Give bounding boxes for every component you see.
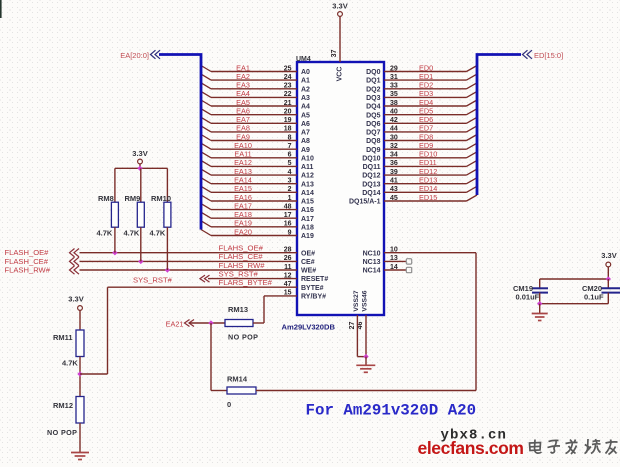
- svg-text:NO POP: NO POP: [228, 333, 258, 342]
- svg-text:A7: A7: [301, 130, 310, 137]
- svg-text:3.3V: 3.3V: [332, 2, 347, 11]
- svg-text:ED11: ED11: [419, 158, 437, 167]
- svg-text:30: 30: [390, 134, 398, 141]
- svg-text:5: 5: [288, 160, 292, 167]
- svg-text:4: 4: [288, 169, 292, 176]
- svg-text:34: 34: [390, 152, 398, 159]
- svg-text:DQ7: DQ7: [366, 130, 381, 137]
- svg-text:EA[20:0]: EA[20:0]: [120, 51, 149, 60]
- svg-text:33: 33: [390, 83, 398, 90]
- svg-text:ED15: ED15: [419, 193, 437, 202]
- svg-text:A5: A5: [301, 112, 310, 119]
- svg-text:NC10: NC10: [363, 250, 381, 257]
- svg-text:UM4: UM4: [296, 56, 311, 63]
- svg-text:4.7K: 4.7K: [62, 359, 78, 368]
- svg-text:16: 16: [284, 221, 292, 228]
- svg-text:A17: A17: [301, 216, 314, 223]
- svg-text:RESET#: RESET#: [301, 276, 328, 283]
- svg-text:RY/BY#: RY/BY#: [301, 294, 326, 301]
- svg-text:EA21: EA21: [166, 320, 184, 329]
- svg-text:DQ0: DQ0: [366, 69, 381, 76]
- svg-text:DQ3: DQ3: [366, 95, 381, 102]
- svg-text:DQ13: DQ13: [362, 181, 380, 188]
- svg-text:SYS_RST#: SYS_RST#: [133, 275, 173, 284]
- svg-text:RM12: RM12: [53, 401, 73, 410]
- svg-text:DQ10: DQ10: [362, 155, 380, 162]
- svg-text:4.7K: 4.7K: [150, 229, 166, 238]
- svg-text:FLASH_CE#: FLASH_CE#: [5, 257, 49, 266]
- svg-text:42: 42: [390, 117, 398, 124]
- svg-text:RM8: RM8: [98, 194, 114, 203]
- svg-text:A9: A9: [301, 147, 310, 154]
- svg-text:ED1: ED1: [419, 72, 433, 81]
- svg-text:43: 43: [390, 186, 398, 193]
- svg-text:DQ4: DQ4: [366, 104, 381, 111]
- svg-text:EA19: EA19: [234, 219, 252, 228]
- svg-text:29: 29: [390, 65, 398, 72]
- svg-text:RM14: RM14: [227, 375, 248, 384]
- svg-text:2: 2: [288, 186, 292, 193]
- svg-text:3.3V: 3.3V: [68, 295, 83, 304]
- svg-text:32: 32: [390, 143, 398, 150]
- svg-text:DQ14: DQ14: [362, 190, 380, 197]
- svg-text:18: 18: [284, 126, 292, 133]
- svg-text:FLASH_RW#: FLASH_RW#: [5, 266, 51, 275]
- svg-text:ED[15:0]: ED[15:0]: [534, 51, 563, 60]
- svg-text:A16: A16: [301, 207, 314, 214]
- svg-text:NO POP: NO POP: [47, 428, 77, 437]
- svg-text:EA2: EA2: [236, 72, 250, 81]
- svg-text:48: 48: [284, 203, 292, 210]
- svg-text:RM11: RM11: [53, 333, 73, 342]
- svg-text:21: 21: [284, 100, 292, 107]
- svg-text:A15: A15: [301, 199, 314, 206]
- svg-text:FLAHS_OE#: FLAHS_OE#: [219, 244, 264, 253]
- svg-text:DQ8: DQ8: [366, 138, 381, 145]
- svg-text:A13: A13: [301, 181, 314, 188]
- svg-text:A18: A18: [301, 224, 314, 231]
- svg-text:17: 17: [284, 212, 292, 219]
- svg-text:WE#: WE#: [301, 268, 316, 275]
- svg-text:BYTE#: BYTE#: [301, 285, 324, 292]
- svg-text:For Am291v320D A20: For Am291v320D A20: [306, 402, 477, 420]
- svg-text:25: 25: [284, 65, 292, 72]
- svg-text:RM13: RM13: [228, 305, 248, 314]
- svg-text:RM9: RM9: [125, 194, 141, 203]
- svg-text:36: 36: [390, 160, 398, 167]
- svg-text:A19: A19: [301, 233, 314, 240]
- svg-text:27: 27: [349, 322, 356, 330]
- svg-text:DQ9: DQ9: [366, 147, 381, 154]
- svg-text:elecfans.com: elecfans.com: [418, 438, 524, 458]
- svg-text:3: 3: [288, 178, 292, 185]
- svg-text:CE#: CE#: [301, 259, 315, 266]
- svg-text:0.01uF: 0.01uF: [516, 292, 540, 301]
- svg-text:DQ15/A-1: DQ15/A-1: [349, 199, 381, 206]
- svg-text:A4: A4: [301, 104, 310, 111]
- svg-text:VCC: VCC: [337, 67, 344, 82]
- svg-text:41: 41: [390, 178, 398, 185]
- svg-text:A10: A10: [301, 155, 314, 162]
- svg-text:8: 8: [288, 134, 292, 141]
- svg-text:A2: A2: [301, 86, 310, 93]
- svg-text:6: 6: [288, 152, 292, 159]
- svg-text:EA5: EA5: [236, 98, 250, 107]
- svg-text:ED8: ED8: [419, 132, 433, 141]
- svg-text:DQ11: DQ11: [363, 164, 381, 171]
- svg-text:31: 31: [390, 74, 398, 81]
- svg-text:37: 37: [331, 50, 338, 58]
- svg-text:ED14: ED14: [419, 184, 437, 193]
- svg-text:A1: A1: [301, 78, 310, 85]
- svg-text:A0: A0: [301, 69, 310, 76]
- svg-text:ED4: ED4: [419, 98, 433, 107]
- svg-text:DQ2: DQ2: [366, 86, 381, 93]
- svg-text:4.7K: 4.7K: [97, 229, 113, 238]
- svg-text:24: 24: [284, 74, 292, 81]
- svg-text:0.1uF: 0.1uF: [584, 292, 604, 301]
- svg-text:3.3V: 3.3V: [601, 251, 616, 260]
- svg-text:EA9: EA9: [236, 132, 250, 141]
- svg-text:DQ12: DQ12: [362, 173, 380, 180]
- svg-text:DQ6: DQ6: [366, 121, 381, 128]
- svg-text:VSS46: VSS46: [361, 290, 368, 311]
- svg-text:DQ1: DQ1: [366, 78, 381, 85]
- svg-text:RM10: RM10: [151, 194, 171, 203]
- svg-text:EA12: EA12: [234, 158, 252, 167]
- svg-text:A12: A12: [301, 173, 314, 180]
- svg-text:A3: A3: [301, 95, 310, 102]
- svg-text:22: 22: [284, 91, 292, 98]
- svg-text:A11: A11: [301, 164, 314, 171]
- svg-text:38: 38: [390, 100, 398, 107]
- svg-text:Am29LV320DB: Am29LV320DB: [282, 323, 336, 332]
- svg-text:3.3V: 3.3V: [132, 149, 147, 158]
- svg-text:EA20: EA20: [234, 227, 252, 236]
- svg-text:45: 45: [390, 195, 398, 202]
- svg-text:OE#: OE#: [301, 250, 315, 257]
- svg-text:35: 35: [390, 91, 398, 98]
- svg-text:DQ5: DQ5: [366, 112, 381, 119]
- svg-text:VSS27: VSS27: [353, 290, 360, 311]
- svg-text:40: 40: [390, 109, 398, 116]
- svg-text:NC14: NC14: [363, 268, 381, 275]
- svg-text:EA15: EA15: [234, 184, 252, 193]
- svg-text:0: 0: [227, 400, 231, 409]
- svg-text:1: 1: [288, 195, 292, 202]
- svg-text:FLARS_BYTE#: FLARS_BYTE#: [219, 278, 273, 287]
- svg-text:7: 7: [288, 143, 292, 150]
- svg-text:A14: A14: [301, 190, 314, 197]
- svg-text:A8: A8: [301, 138, 310, 145]
- svg-text:23: 23: [284, 83, 292, 90]
- svg-text:A6: A6: [301, 121, 310, 128]
- svg-text:4.7K: 4.7K: [124, 229, 140, 238]
- svg-text:44: 44: [390, 126, 398, 133]
- svg-text:NC13: NC13: [363, 259, 381, 266]
- svg-text:20: 20: [284, 109, 292, 116]
- svg-text:39: 39: [390, 169, 398, 176]
- svg-text:9: 9: [288, 229, 292, 236]
- svg-text:19: 19: [284, 117, 292, 124]
